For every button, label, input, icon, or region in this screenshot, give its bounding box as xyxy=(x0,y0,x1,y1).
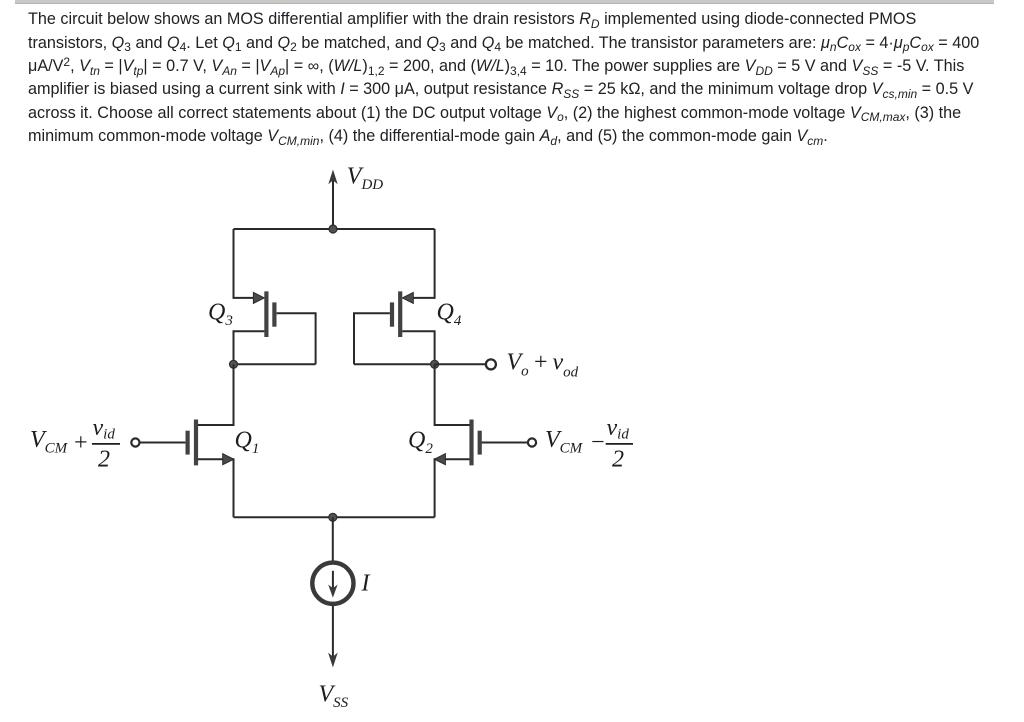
svg-text:Q4: Q4 xyxy=(437,299,462,329)
wire Q1 gate lead xyxy=(140,442,185,444)
svg-text:+: + xyxy=(73,430,89,456)
current source I internal arrow xyxy=(328,571,337,598)
transistor Q2 source arrow xyxy=(434,454,445,465)
junction dot at VDD rail xyxy=(329,225,337,233)
current source I circle xyxy=(312,563,353,604)
svg-text:I: I xyxy=(361,571,371,597)
wire Q3 drain lead xyxy=(234,331,265,364)
wire top rail xyxy=(234,228,435,230)
transistor Q4 source arrow xyxy=(402,292,413,303)
svg-text:Q1: Q1 xyxy=(235,428,260,458)
input terminal circle Q2 gate xyxy=(528,438,536,446)
wire Q4 gate to drain (diode connection left) xyxy=(354,313,390,364)
transistor Q3 channel plate xyxy=(264,291,268,337)
label Q2 xyxy=(408,428,433,458)
transistor Q3 source arrow xyxy=(253,292,264,303)
label VCM + vid/2 (left input) xyxy=(30,415,120,472)
svg-text:Vo+vod: Vo+vod xyxy=(507,350,579,381)
label Vo + vod xyxy=(507,350,579,381)
wire tail to current source xyxy=(332,517,334,561)
wire Q2 drain lead xyxy=(435,364,470,425)
output terminal circle xyxy=(486,359,496,369)
svg-text:vid: vid xyxy=(607,415,630,443)
wire Q3 gate to drain (diode connection right) xyxy=(277,313,316,364)
wire Q1 drain lead xyxy=(198,364,234,425)
label VSS xyxy=(319,681,349,711)
transistor Q4 channel plate xyxy=(398,291,402,337)
svg-text:Q3: Q3 xyxy=(208,299,233,329)
transistor Q3 gate plate xyxy=(272,302,276,326)
wire bottom rail xyxy=(234,516,435,518)
junction dot Q4 drain node (output) xyxy=(431,360,439,368)
label I xyxy=(361,571,371,597)
svg-text:VCM: VCM xyxy=(30,427,69,457)
wire Q3 drain-gate horizontal xyxy=(234,363,316,365)
svg-text:vid: vid xyxy=(93,415,116,443)
VDD supply arrow xyxy=(328,170,337,230)
wire current source to VSS arrow xyxy=(332,605,334,660)
wire Q1 source lead xyxy=(198,459,234,517)
wire Q4 drain lead xyxy=(402,331,434,364)
svg-text:VDD: VDD xyxy=(347,163,384,193)
wire output lead xyxy=(435,363,486,365)
label Q3 xyxy=(208,299,233,329)
transistor Q4 gate plate xyxy=(390,302,394,326)
wire Q3 source lead xyxy=(234,229,257,298)
wire Q2 source lead xyxy=(435,459,470,517)
svg-text:−: − xyxy=(590,430,606,456)
label VCM - vid/2 (right input) xyxy=(545,415,633,472)
VSS arrowhead xyxy=(328,653,338,668)
wire Q4 source lead xyxy=(411,229,435,298)
transistor Q2 channel plate xyxy=(469,420,473,466)
input terminal circle Q1 gate xyxy=(131,438,139,446)
label VDD xyxy=(347,163,384,193)
wire Q2 gate lead xyxy=(482,442,528,444)
svg-text:2: 2 xyxy=(98,446,110,472)
svg-text:2: 2 xyxy=(612,446,624,472)
transistor Q1 channel plate xyxy=(194,420,198,466)
wire Q4 drain-gate horizontal xyxy=(354,363,435,365)
junction dot tail node xyxy=(329,513,337,521)
svg-text:VSS: VSS xyxy=(319,681,349,711)
transistor Q1 source arrow xyxy=(223,454,234,465)
svg-text:VCM: VCM xyxy=(545,427,584,457)
transistor Q1 gate plate xyxy=(186,431,190,455)
label Q4 xyxy=(437,299,462,329)
label Q1 xyxy=(235,428,260,458)
junction dot Q3 drain node xyxy=(230,360,238,368)
svg-text:Q2: Q2 xyxy=(408,428,433,458)
transistor Q2 gate plate xyxy=(478,431,482,455)
